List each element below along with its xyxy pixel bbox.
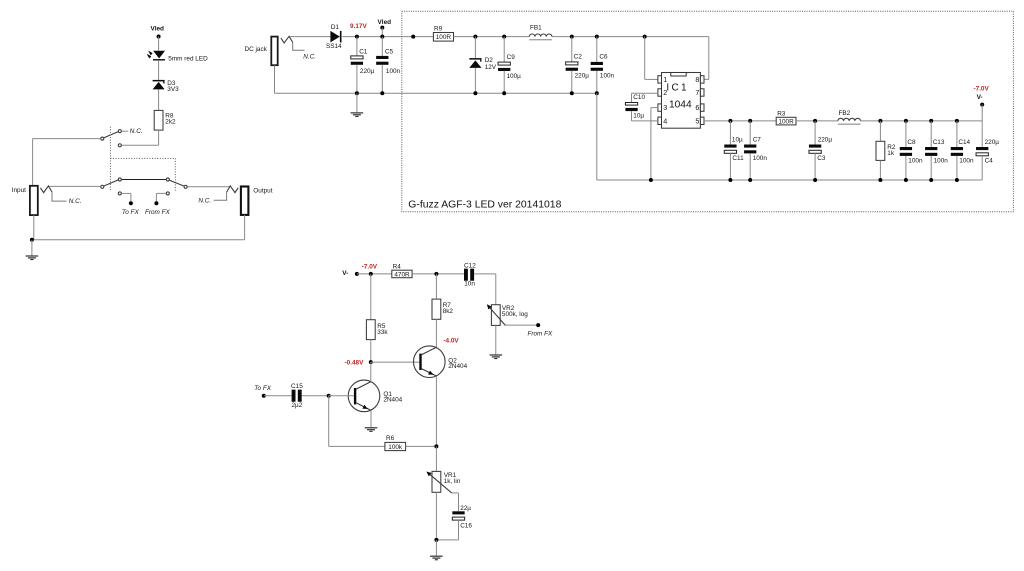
svg-text:FB1: FB1	[530, 24, 542, 31]
svg-text:10µ: 10µ	[633, 113, 644, 120]
resistor R5 33k	[370, 274, 372, 320]
node dot C3 top	[813, 119, 817, 123]
node dot Q1 collector / Q2 base junction	[369, 360, 373, 364]
svg-text:1044: 1044	[669, 100, 692, 111]
svg-text:G-fuzz AGF-3 LED ver 20141018: G-fuzz AGF-3 LED ver 20141018	[408, 199, 561, 210]
switch SW1 pole 1 common contact	[101, 137, 104, 140]
switch SW1 pole 1 lever	[104, 132, 118, 138]
node dot C2 top	[570, 35, 574, 39]
svg-text:4: 4	[663, 116, 667, 125]
jack J3 tip spring contact	[281, 36, 293, 43]
ground symbol at input jack	[31, 240, 33, 256]
dotted mechanical link line of footswitch	[109, 127, 111, 192]
wire To FX to C15	[264, 395, 292, 397]
ground rail of switch section	[32, 239, 245, 241]
wire input jack sleeve to ground rail	[33, 215, 35, 240]
resistor R6 100k	[385, 442, 406, 450]
jack J1 N.C. contact leg	[52, 192, 67, 201]
svg-text:3V3: 3V3	[167, 86, 179, 93]
svg-text:R3: R3	[777, 111, 786, 118]
svg-text:7: 7	[695, 88, 699, 97]
wire R9 to FB1	[454, 36, 530, 38]
pin 2	[658, 89, 662, 96]
svg-text:Vled: Vled	[150, 25, 164, 32]
pin 8	[700, 76, 704, 83]
svg-text:33k: 33k	[377, 329, 388, 336]
svg-text:Output: Output	[253, 187, 272, 194]
zener diode D2 12V	[474, 37, 476, 59]
svg-text:2µ2: 2µ2	[292, 402, 303, 409]
node V- supply dot	[355, 272, 359, 276]
node From FX terminal dot	[154, 201, 158, 205]
node ground junction dot at input	[30, 238, 34, 242]
svg-text:12V: 12V	[485, 64, 497, 71]
ground symbol at power section	[356, 93, 358, 112]
svg-text:220µ: 220µ	[575, 73, 590, 80]
svg-text:8: 8	[695, 75, 699, 84]
svg-text:10µ: 10µ	[732, 137, 743, 144]
capacitor C13 100n	[930, 121, 932, 147]
svg-text:100n: 100n	[908, 158, 923, 165]
svg-text:100n: 100n	[386, 68, 401, 75]
wire ground rail down to negative section bottom rail	[596, 93, 598, 180]
node dot C13 bottom	[929, 178, 933, 182]
capacitor C7 100n	[749, 121, 751, 145]
switch From FX throw contact	[166, 192, 169, 195]
jack J2 tip spring contact	[227, 186, 239, 193]
jack J2 N.C. contact leg	[214, 192, 227, 200]
node dot C14 bottom	[955, 178, 959, 182]
wire junction to Q1 base	[329, 395, 354, 397]
svg-text:100k: 100k	[388, 444, 403, 451]
jack J2 Output body	[241, 187, 249, 215]
wire Q2 emitter down to R6 junction	[435, 376, 437, 446]
svg-text:2N404: 2N404	[448, 363, 467, 370]
resistor R2 1k	[879, 121, 881, 141]
svg-text:R9: R9	[434, 26, 443, 33]
wire R3 to FB2	[796, 120, 838, 122]
wire IC1 pin 5 output to R3	[704, 120, 776, 122]
capacitor C3 220µ electrolytic	[814, 121, 816, 145]
wire VR2 bottom to ground	[495, 325, 497, 354]
wire FB2 to V- output node	[861, 120, 983, 122]
svg-text:220µ: 220µ	[985, 139, 1000, 146]
svg-text:C5: C5	[385, 49, 394, 56]
svg-text:N.C.: N.C.	[303, 54, 316, 61]
switch SW1 pole 2 left common contact	[101, 185, 104, 188]
node dot at dotted-box boundary	[411, 35, 415, 39]
svg-text:R6: R6	[386, 435, 395, 442]
wire VR1 bottom to ground junction	[435, 492, 437, 540]
node To FX terminal dot	[129, 201, 133, 205]
svg-text:C12: C12	[464, 263, 476, 270]
ground symbol at VR2	[490, 354, 503, 355]
wire IC1 pin 8 to V+ rail	[704, 78, 709, 80]
svg-text:N.C.: N.C.	[130, 128, 143, 135]
node dot D2 top	[473, 35, 477, 39]
wire FB1 to charge pump section	[552, 36, 709, 38]
wire V- to R4	[357, 273, 392, 275]
svg-text:C8: C8	[907, 139, 916, 146]
node V- output dot	[980, 103, 984, 107]
svg-text:D1: D1	[331, 24, 340, 31]
svg-text:C15: C15	[291, 383, 303, 390]
switch To FX throw contact	[118, 192, 121, 195]
svg-text:-7.0V: -7.0V	[973, 85, 989, 92]
svg-text:220µ: 220µ	[818, 137, 833, 144]
svg-text:6: 6	[695, 103, 699, 112]
node dot pin 3 ground junction	[649, 178, 653, 182]
svg-text:C9: C9	[507, 54, 516, 61]
svg-text:3: 3	[663, 103, 667, 112]
capacitor C9 100µ electrolytic	[503, 37, 505, 63]
svg-text:R4: R4	[393, 264, 402, 271]
svg-text:-7.0V: -7.0V	[362, 264, 378, 271]
svg-text:-4.0V: -4.0V	[443, 337, 459, 344]
node dot pin1 wire on V+ rail	[643, 35, 647, 39]
node dot C6 bottom / ground rail corner	[595, 91, 599, 95]
svg-text:To FX: To FX	[254, 385, 272, 392]
node dot C9 top	[502, 35, 506, 39]
LED D-led 5mm red LED symbol	[153, 51, 165, 59]
svg-text:C4: C4	[985, 158, 994, 165]
capacitor C14 100n	[956, 121, 958, 147]
resistor R3 100R	[776, 117, 796, 125]
svg-text:SS14: SS14	[326, 43, 342, 50]
ground symbol at Q1 emitter	[365, 427, 378, 428]
wire pole 1 common to input jack sleeve	[33, 138, 101, 140]
wire junction down to VR1	[435, 446, 437, 471]
transistor Q2 2N404	[414, 346, 446, 378]
capacitor C16 22µ electrolytic	[452, 511, 464, 514]
transistor Q1 2N404	[348, 380, 380, 412]
node dot R2 top	[878, 119, 882, 123]
wire output jack sleeve to ground rail	[244, 215, 246, 240]
svg-text:N.C.: N.C.	[198, 198, 211, 205]
node dot C14 top	[955, 119, 959, 123]
svg-text:C14: C14	[958, 139, 970, 146]
resistor R8 2k2	[154, 110, 163, 130]
node dot VR1 / C16 ground junction	[434, 538, 438, 542]
node dot C8 top	[904, 119, 908, 123]
node dot C7 bottom	[748, 178, 752, 182]
svg-text:C7: C7	[753, 137, 762, 144]
capacitor C12 10n	[464, 269, 468, 281]
svg-text:C16: C16	[460, 522, 472, 529]
capacitor C6 100n	[596, 37, 598, 62]
pin 3	[658, 104, 662, 111]
svg-text:8k2: 8k2	[443, 308, 454, 315]
ground rail of power section	[275, 92, 597, 94]
svg-text:100n: 100n	[753, 155, 768, 162]
ground symbol at VR1 bottom	[435, 540, 437, 556]
svg-text:220µ: 220µ	[360, 68, 375, 75]
switch SW1 pole 2 right lever	[169, 180, 184, 186]
svg-text:100R: 100R	[778, 119, 794, 126]
node dot C13 top	[929, 119, 933, 123]
node dot C15 / R6 junction	[327, 394, 331, 398]
switch SW1 pole 2 upper-left throw contact	[118, 178, 121, 181]
node dot C5 bottom	[380, 91, 384, 95]
switch SW1 pole 2 upper-right throw contact	[166, 178, 169, 181]
wire C12 to VR2	[474, 273, 496, 275]
capacitor C8 100n	[905, 121, 907, 147]
pin 4	[658, 117, 662, 124]
capacitor C2 220µ electrolytic	[571, 37, 573, 62]
svg-text:500k, log: 500k, log	[502, 311, 528, 318]
wire VR2 wiper to From FX	[506, 324, 539, 326]
jack J1 tip spring contact	[40, 186, 52, 193]
svg-text:Vled: Vled	[378, 19, 392, 26]
svg-text:C10: C10	[633, 94, 645, 101]
wire C15 to Q1 base junction	[302, 395, 329, 397]
ferrite bead FB2	[838, 118, 861, 121]
node dot C9 bottom	[502, 91, 506, 95]
node dot C8 bottom	[904, 178, 908, 182]
svg-text:2N404: 2N404	[383, 397, 402, 404]
svg-text:1: 1	[663, 75, 667, 84]
diode D1 SS14	[330, 31, 340, 43]
wire DC jack tip to diode D1	[290, 36, 331, 38]
svg-text:470R: 470R	[394, 271, 410, 278]
switch SW1 pole 2 left lever	[104, 180, 118, 186]
jack J1 Input body	[30, 186, 38, 215]
svg-text:V-: V-	[342, 270, 348, 277]
svg-text:100n: 100n	[934, 158, 949, 165]
jack J3 DC jack body	[271, 37, 277, 66]
potentiometer VR1 1k lin	[432, 471, 441, 492]
pin 5	[700, 117, 704, 124]
pin 1	[658, 76, 662, 83]
node dot C5 / Vled junction	[380, 35, 384, 39]
wire R6 to Q2 emitter junction	[405, 445, 436, 447]
pin 7	[700, 89, 704, 96]
svg-text:Input: Input	[12, 187, 26, 194]
pin 6	[700, 104, 704, 111]
wire D1 cathode along +9V rail	[342, 36, 433, 38]
wire R8 bottom to footswitch pole 1 throw	[158, 130, 160, 145]
wire LED cathode to zener D3	[158, 61, 160, 80]
capacitor C15 2µ2	[292, 390, 296, 402]
node dot C3 bottom	[813, 178, 817, 182]
svg-text:To FX: To FX	[122, 209, 140, 216]
svg-text:100µ: 100µ	[507, 73, 522, 80]
capacitor C11 10µ electrolytic	[729, 121, 731, 145]
capacitor C1 220µ electrolytic	[356, 37, 358, 56]
wire IC1 pin 3 to bottom rail	[651, 107, 658, 109]
svg-text:DC jack: DC jack	[245, 46, 268, 53]
svg-text:V-: V-	[977, 94, 983, 101]
capacitor C5 100n	[381, 37, 383, 56]
node To FX terminal dot at fuzz	[262, 394, 266, 398]
wire R4 to C12 junction	[412, 273, 464, 275]
svg-text:5: 5	[695, 116, 699, 125]
ferrite bead FB1	[529, 34, 552, 37]
svg-text:From FX: From FX	[145, 209, 171, 216]
node dot R6 / VR1 junction	[434, 444, 438, 448]
svg-text:5mm red LED: 5mm red LED	[168, 56, 208, 63]
wire between pole 2 upper throws	[122, 179, 166, 181]
node dot C11 top	[728, 119, 732, 123]
node dot C11 bottom	[728, 178, 732, 182]
svg-text:C2: C2	[574, 54, 583, 61]
wire junction to Q2 base	[371, 361, 420, 363]
node From FX terminal dot	[536, 323, 540, 327]
svg-text:FB2: FB2	[839, 110, 851, 117]
wire VR1 wiper to C16	[452, 492, 459, 494]
zener diode D3 3V3	[153, 80, 165, 82]
resistor R7 8k2	[435, 274, 437, 299]
node dot D2 bottom	[473, 91, 477, 95]
resistor R9 100R	[433, 33, 453, 42]
svg-text:2k2: 2k2	[165, 119, 176, 126]
svg-text:From FX: From FX	[527, 331, 553, 338]
svg-text:2: 2	[663, 88, 667, 97]
wire Q1 collector up to junction	[370, 362, 372, 382]
node Vled junction dot	[157, 35, 161, 39]
node dot R2 bottom	[878, 178, 882, 182]
node dot C2 bottom	[570, 91, 574, 95]
svg-text:C6: C6	[599, 54, 608, 61]
svg-text:C3: C3	[817, 155, 826, 162]
switch SW1 pole 1 lower throw contact	[118, 144, 121, 147]
svg-text:10n: 10n	[464, 280, 475, 287]
potentiometer VR2 500k log	[491, 305, 500, 326]
node dot R5 top junction	[369, 272, 373, 276]
wire Q1 emitter to ground	[370, 410, 372, 427]
svg-text:N.C.: N.C.	[69, 198, 82, 205]
wire feedback junction down to R6	[328, 396, 330, 447]
svg-text:100n: 100n	[959, 158, 974, 165]
svg-text:IC1: IC1	[666, 83, 688, 94]
svg-text:100R: 100R	[436, 34, 452, 41]
wire DC jack sleeve to ground rail	[274, 65, 276, 93]
node dot R7/C12 junction	[434, 272, 438, 276]
node dot C6 top	[595, 35, 599, 39]
resistor R4 470R	[392, 270, 412, 278]
svg-text:-0.48V: -0.48V	[345, 359, 365, 366]
node dot C1 bottom	[355, 91, 359, 95]
svg-text:1k, lin: 1k, lin	[444, 478, 461, 485]
capacitor C4 220µ electrolytic	[981, 121, 983, 147]
jack J3 N.C. contact leg	[293, 42, 305, 50]
wire Vled dot to LED anode	[158, 37, 160, 51]
dotted enclosure box of power supply subcircuit	[402, 11, 1014, 212]
wire D3 anode to resistor R8	[158, 89, 160, 110]
wire pole 2 left to input jack tip	[49, 185, 100, 187]
op-amp IC1 1044 charge pump body	[662, 73, 701, 129]
node dot C1 top	[355, 35, 359, 39]
svg-text:9.17V: 9.17V	[350, 23, 367, 30]
svg-text:1k: 1k	[887, 150, 895, 157]
svg-text:C11: C11	[732, 155, 744, 162]
capacitor C10 10µ flying capacitor	[631, 93, 633, 102]
svg-text:C13: C13	[933, 139, 945, 146]
switch SW1 pole 2 right common contact	[184, 185, 187, 188]
wire pole 2 right to output jack tip	[188, 186, 230, 188]
bottom rail of charge pump section	[597, 179, 982, 181]
wire C16 bottom to VR1 bottom junction	[458, 520, 460, 540]
wire V+ rail to IC1 pin 1	[644, 37, 646, 80]
svg-text:22µ: 22µ	[460, 505, 471, 512]
node dot C7 top	[748, 119, 752, 123]
switch SW1 pole 1 upper throw contact (N.C.)	[118, 130, 121, 133]
svg-text:100n: 100n	[600, 73, 615, 80]
svg-text:D2: D2	[485, 57, 494, 64]
svg-text:C1: C1	[359, 49, 368, 56]
